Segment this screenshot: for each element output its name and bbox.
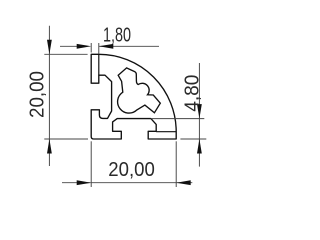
dimension line 4,80 lower tail: [198, 139, 200, 167]
dimension line 20,00 bottom span: [91, 182, 176, 184]
arrowhead 20,00 bottom right: [176, 180, 191, 185]
arrowhead 20,00 bottom left: [77, 180, 92, 185]
arrowhead 20,00 left top: [47, 40, 52, 55]
arrowhead 4,80 bottom: [197, 139, 202, 154]
svg-text:4,80: 4,80: [181, 75, 203, 112]
arrowhead 1,80 left: [77, 44, 92, 49]
svg-text:20,00: 20,00: [26, 71, 48, 118]
arrowhead 20,00 left bottom: [47, 139, 52, 154]
extension line 20,00 left top: [44, 53, 87, 55]
dimension line 4,80 upper: [198, 63, 200, 139]
arrowhead 4,80 top: [197, 104, 202, 119]
tangent edge top: [98, 54, 100, 75]
extension line 20,00 bottom left: [90, 141, 92, 187]
arrowhead 1,80 right: [99, 44, 114, 49]
dimension line 20,00 bottom left tail: [62, 182, 91, 184]
tangent edge right: [156, 131, 176, 133]
svg-text:20,00: 20,00: [108, 159, 155, 181]
profile outline (20x20 rounded-corner extrusion with two T-slots): [91, 54, 176, 139]
svg-text:1,80: 1,80: [103, 24, 131, 46]
extension line 20,00 bottom right: [175, 141, 177, 187]
dimension line 20,00 left vertical: [48, 26, 50, 166]
dimension line 1,80 right tail: [99, 45, 159, 47]
extension line 1,80 left: [90, 43, 92, 53]
core hole: [118, 68, 161, 113]
extension line 20,00 left bottom: [44, 138, 88, 140]
dimension line 20,00 bottom right tail: [176, 182, 192, 184]
dimension line 1,80 left tail: [60, 45, 79, 47]
extension line 1,80 right: [98, 43, 100, 54]
extension line 4,80 top: [151, 118, 204, 120]
extension line 4,80 bottom: [180, 138, 206, 140]
